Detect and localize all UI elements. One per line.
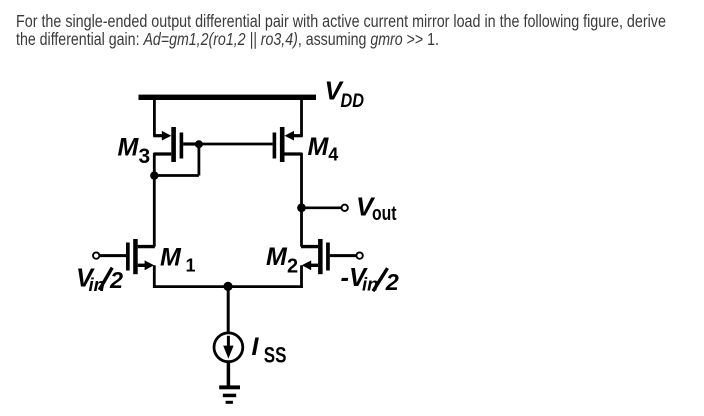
svg-text:I: I [252,333,260,361]
wire M2 gate lead [330,254,357,257]
wire current source to ground [227,362,231,386]
svg-text:3: 3 [139,145,151,168]
svg-text:M: M [160,244,182,272]
wire M3 drain to M1 drain [153,153,156,247]
label Vout [356,192,397,226]
current source ISS [214,333,243,362]
wire Vout [302,207,342,210]
VDD rail [139,95,317,100]
svg-text:4: 4 [328,145,338,165]
wire M4 source to VDD [300,99,303,136]
label M4 [308,133,339,165]
question text [16,13,704,30]
wire M1 gate lead [99,254,126,257]
svg-text:DD: DD [341,91,365,112]
ground [219,385,240,403]
svg-text:M: M [308,133,330,161]
wire diode feedback vertical [197,144,200,175]
node Vout junction [297,203,306,212]
svg-text:SS: SS [264,342,287,367]
wire M2 source down [300,265,303,288]
label VDD [325,76,365,113]
svg-text:2: 2 [109,267,123,293]
transistor M2 [301,239,330,274]
label M2 [266,243,298,278]
svg-text:2: 2 [287,256,298,278]
svg-text:1: 1 [186,256,196,276]
terminal Vout [342,205,348,211]
label ISS [252,333,287,367]
node M3 drain junction [150,171,158,179]
node tail junction [223,282,232,291]
wire gate bus M3 to M4 [199,143,273,146]
transistor M1 [126,239,155,274]
wire M4 drain to M2 drain [300,153,303,247]
wire M3 source to VDD [153,99,156,136]
svg-text:out: out [372,203,397,225]
wire tail to current source [227,287,230,334]
label M3 [118,134,151,169]
transistor M4 [273,127,303,162]
terminal -Vin/2 [356,252,362,258]
wire diode feedback horizontal [154,174,199,177]
label M1 [160,244,196,276]
svg-text:2: 2 [385,269,399,295]
wire M1 source down [153,265,156,288]
wire tail [153,285,303,288]
terminal Vin/2 [93,252,99,258]
svg-text:M: M [118,134,140,162]
node gate bus junction [195,140,203,148]
svg-text:M: M [266,243,288,271]
label -Vin/2 [341,264,399,295]
label Vin/2 [76,265,123,295]
transistor M3 [153,127,199,162]
